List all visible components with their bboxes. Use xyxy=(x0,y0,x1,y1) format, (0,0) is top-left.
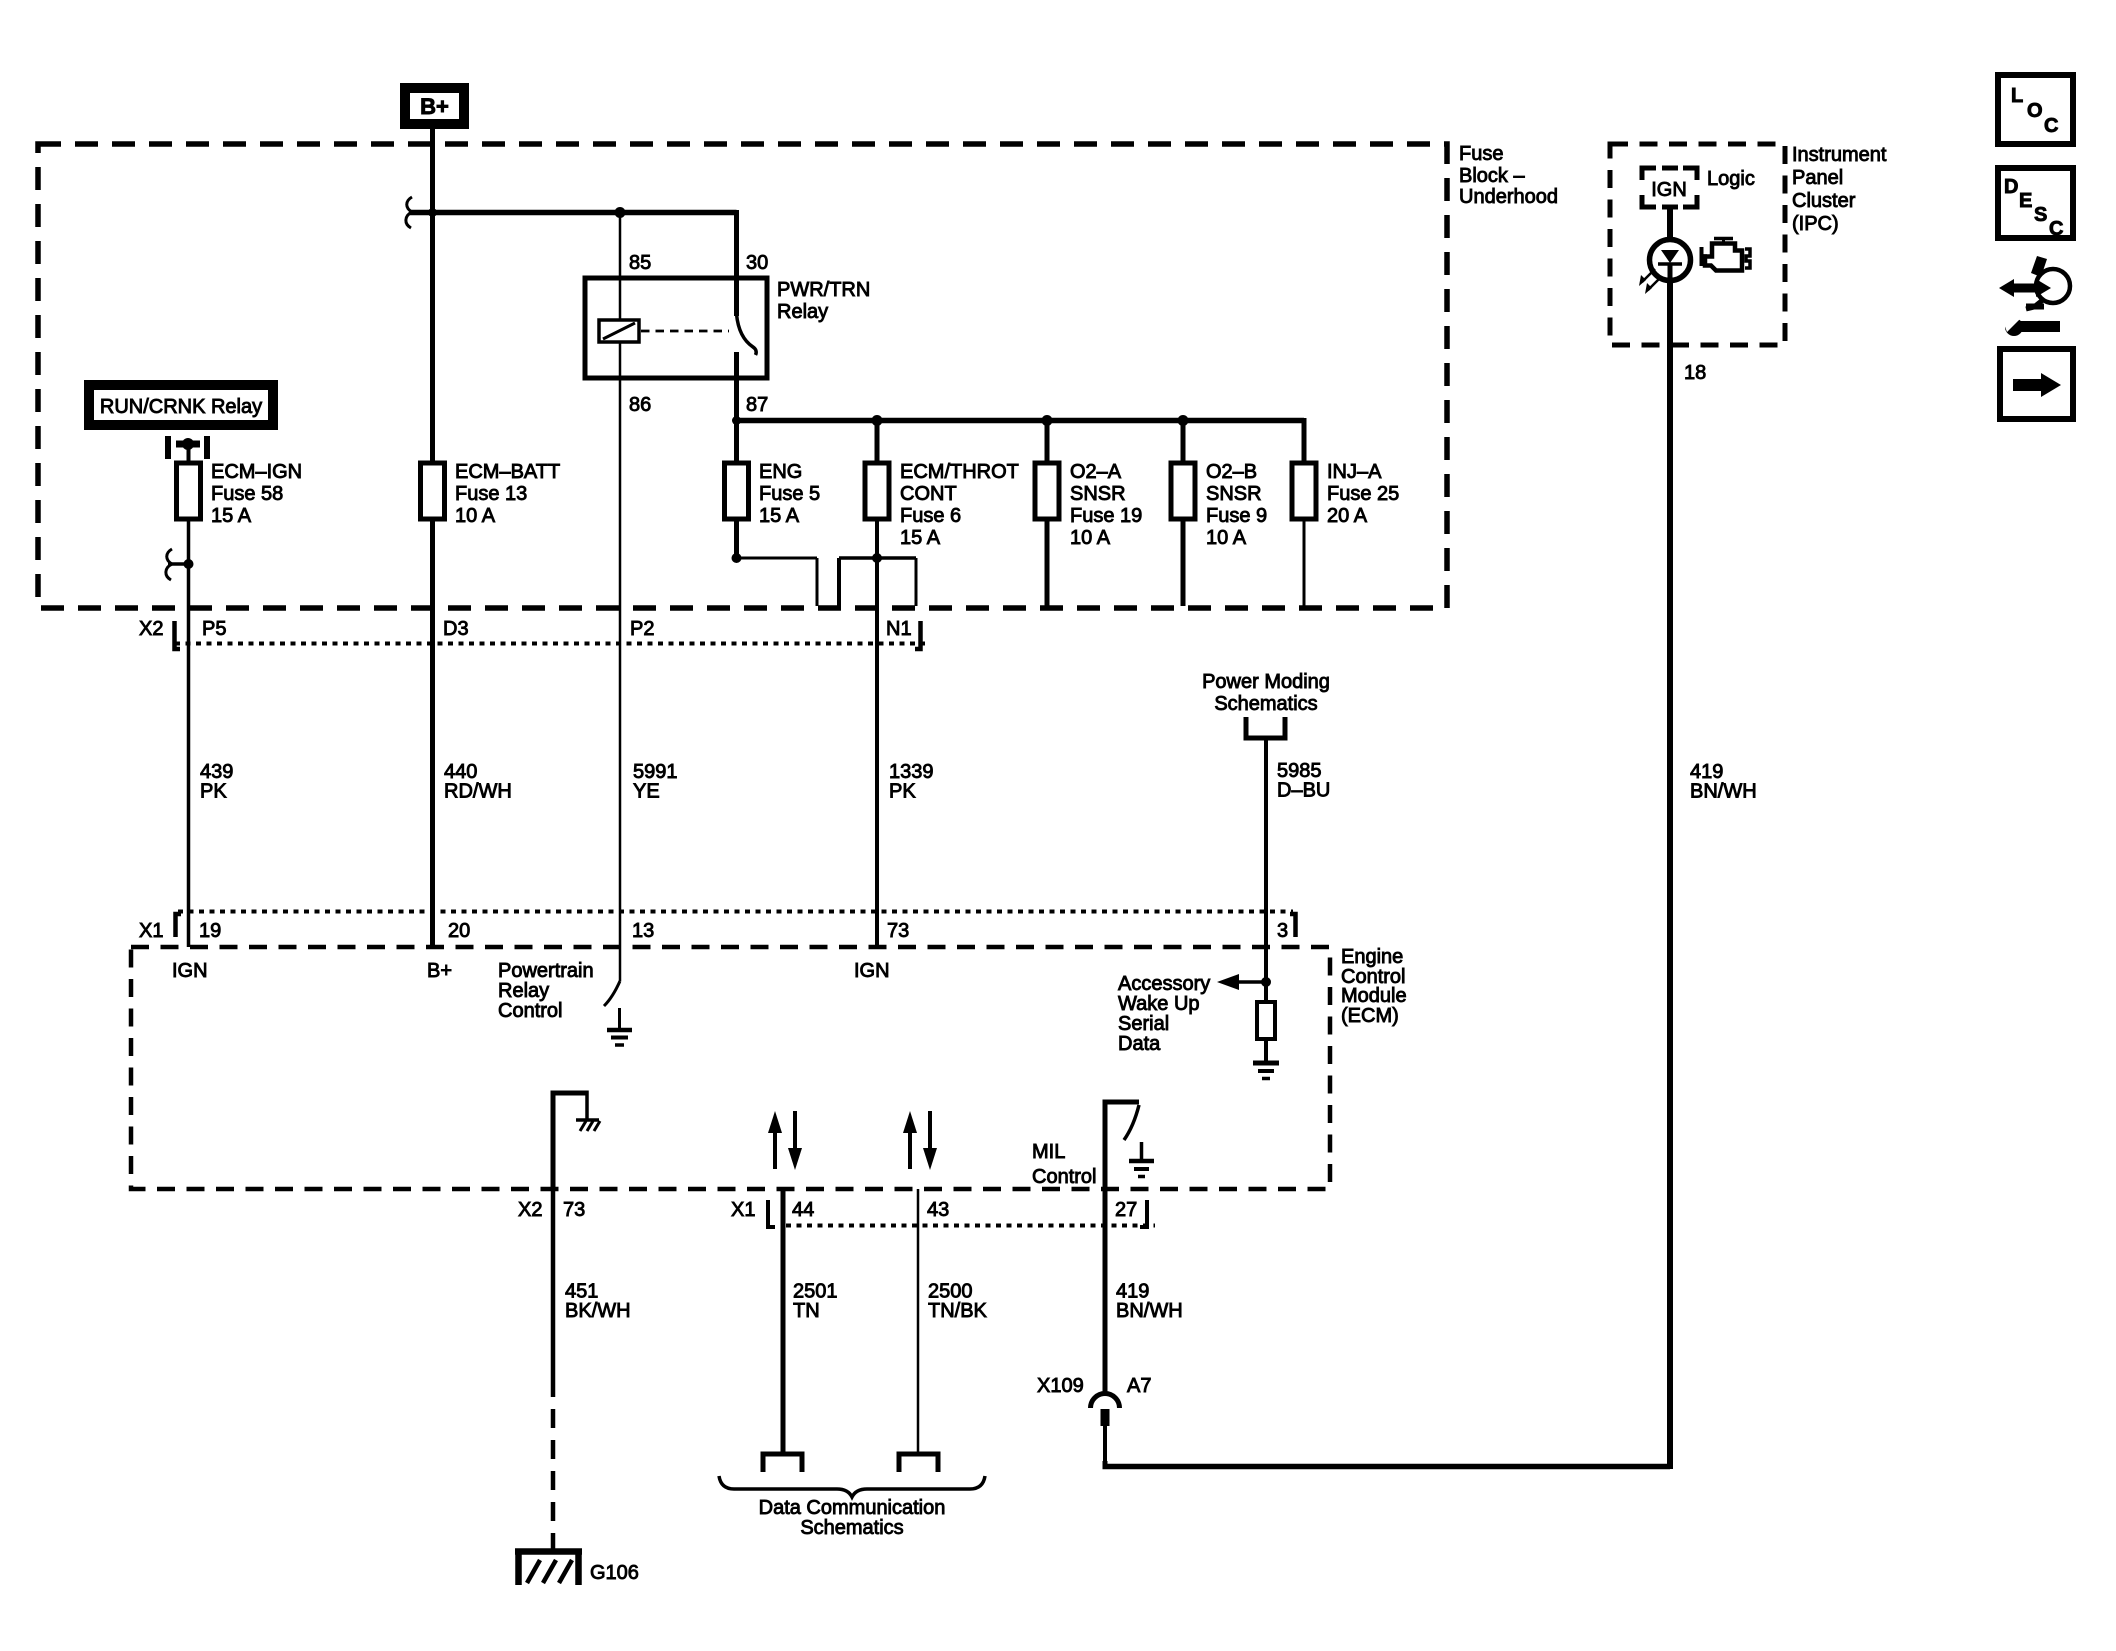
ground flag X2-73 inside ECM xyxy=(551,1091,588,1190)
svg-text:A7: A7 xyxy=(1127,1375,1151,1397)
svg-text:73: 73 xyxy=(887,920,909,942)
node junction rail start xyxy=(732,416,741,425)
svg-text:Fuse 25: Fuse 25 xyxy=(1327,483,1399,505)
svg-text:RD/WH: RD/WH xyxy=(444,781,512,803)
svg-text:C: C xyxy=(2044,115,2058,137)
wire label 439 PK xyxy=(200,761,233,803)
svg-text:Underhood: Underhood xyxy=(1459,186,1558,208)
svg-text:IGN: IGN xyxy=(172,960,208,982)
wire B+ feed vertical xyxy=(430,129,435,463)
svg-text:Fuse 6: Fuse 6 xyxy=(900,505,961,527)
svg-text:Fuse 9: Fuse 9 xyxy=(1206,505,1267,527)
ECM dashed box xyxy=(131,947,1330,1189)
svg-text:15 A: 15 A xyxy=(900,527,941,549)
wire label 451 BK/WH xyxy=(565,1281,631,1323)
svg-text:TN: TN xyxy=(793,1300,820,1322)
svg-text:ECM–BATT: ECM–BATT xyxy=(455,461,560,483)
wire drop to O2-A fuse xyxy=(1045,421,1050,464)
label MIL Control xyxy=(1032,1141,1096,1188)
wire 451 dashed part xyxy=(551,1378,556,1550)
svg-text:E: E xyxy=(2019,190,2032,212)
svg-text:10 A: 10 A xyxy=(455,505,496,527)
svg-text:Power Moding: Power Moding xyxy=(1202,671,1330,693)
node junction B+ and rail xyxy=(428,208,437,217)
svg-text:Cluster: Cluster xyxy=(1792,190,1856,212)
value label fuse 6 xyxy=(900,461,1019,549)
wire drop to relay pin 30 xyxy=(734,210,739,316)
svg-text:Relay: Relay xyxy=(777,301,828,323)
svg-text:ENG: ENG xyxy=(759,461,802,483)
wire 419 right vertical to IPC xyxy=(1667,280,1673,1469)
ground MIL driver xyxy=(1129,1142,1154,1177)
wire drop to ENG fuse xyxy=(734,421,739,464)
icon wrench and arrows xyxy=(1999,256,2070,336)
IPC dashed box xyxy=(1610,144,1785,345)
svg-text:TN/BK: TN/BK xyxy=(928,1300,988,1322)
svg-text:N1: N1 xyxy=(886,618,912,640)
ground internal ECM driver xyxy=(607,1008,632,1045)
connector X1 left half bracket xyxy=(176,914,182,937)
value label fuse 5 xyxy=(759,461,820,527)
svg-text:BN/WH: BN/WH xyxy=(1690,781,1757,803)
svg-text:Data Communication: Data Communication xyxy=(759,1497,946,1519)
node junction rail F9 xyxy=(1178,415,1189,426)
svg-text:B+: B+ xyxy=(427,960,452,982)
svg-text:D–BU: D–BU xyxy=(1277,780,1330,802)
svg-text:Data: Data xyxy=(1118,1033,1161,1055)
wire below fuse 19 xyxy=(1045,519,1050,606)
connector X1 right half bracket xyxy=(1290,914,1296,937)
svg-text:ECM/THROT: ECM/THROT xyxy=(900,461,1019,483)
resistor internal pull xyxy=(1257,1002,1275,1039)
continuation hook on wire 439 xyxy=(166,549,194,580)
svg-text:73: 73 xyxy=(563,1199,585,1221)
accessory wake up arrow xyxy=(1217,974,1266,990)
fuse F19 O2-A SNSR xyxy=(1035,463,1059,519)
icon box arrow xyxy=(2000,349,2073,419)
label Data Communication Schematics xyxy=(759,1497,946,1539)
wire 419 lower run xyxy=(1103,1426,1671,1467)
wire drop to O2-B fuse xyxy=(1181,421,1186,464)
label Power Moding Schematics xyxy=(1202,671,1330,715)
svg-text:Accessory: Accessory xyxy=(1118,973,1210,995)
terminator 2501 xyxy=(763,1454,802,1472)
RUN/CRNK Relay callout box xyxy=(84,380,278,430)
svg-text:X2: X2 xyxy=(518,1199,542,1221)
svg-text:C: C xyxy=(2049,218,2063,240)
RUN/CRNK relay contact output symbol xyxy=(168,436,207,463)
connector X1 bottom right bracket xyxy=(1140,1200,1147,1227)
connector X2 dotted line xyxy=(175,642,925,646)
node junction fuse5 shelf xyxy=(732,553,742,563)
label Instrument Panel Cluster IPC xyxy=(1792,144,1887,235)
svg-text:O2–A: O2–A xyxy=(1070,461,1122,483)
svg-text:87: 87 xyxy=(746,394,768,416)
svg-text:19: 19 xyxy=(199,920,221,942)
check engine icon xyxy=(1701,238,1750,271)
svg-text:PK: PK xyxy=(889,781,916,803)
wire IGN to MIL lamp xyxy=(1667,207,1673,250)
B+ power symbol xyxy=(400,83,469,129)
chassis ground symbol internal xyxy=(576,1120,600,1131)
net label Powertrain Relay Control xyxy=(498,960,594,1022)
MIL control driver elbow xyxy=(1103,1102,1140,1189)
svg-text:20 A: 20 A xyxy=(1327,505,1368,527)
svg-text:Logic: Logic xyxy=(1707,168,1755,190)
wire resistor to ground xyxy=(1264,1039,1268,1062)
off-page bracket power moding xyxy=(1246,717,1285,738)
connector X1 bottom left bracket xyxy=(768,1200,775,1227)
fuse F5 ENG xyxy=(725,463,749,519)
value label fuse 19 xyxy=(1070,461,1142,549)
wire top rail xyxy=(409,210,737,216)
label Engine Control Module ECM xyxy=(1341,946,1407,1027)
fuse F13 ECM-BATT xyxy=(421,463,445,519)
wire 5985 drop xyxy=(1264,738,1268,947)
svg-text:86: 86 xyxy=(629,394,651,416)
wire drop to relay pin 85 xyxy=(619,213,622,321)
svg-text:20: 20 xyxy=(448,920,470,942)
svg-text:SNSR: SNSR xyxy=(1206,483,1262,505)
powertrain relay control driver switch xyxy=(604,981,620,1006)
fuse F6 ECM/THROT CONT xyxy=(865,463,889,519)
svg-text:(IPC): (IPC) xyxy=(1792,213,1839,235)
wire riser into N1 shelf xyxy=(839,558,916,606)
svg-text:44: 44 xyxy=(792,1199,814,1221)
svg-text:Fuse 13: Fuse 13 xyxy=(455,483,527,505)
svg-text:YE: YE xyxy=(633,781,660,803)
svg-text:MIL: MIL xyxy=(1032,1141,1065,1163)
svg-text:BN/WH: BN/WH xyxy=(1116,1300,1183,1322)
relay box U-PWR/TRN xyxy=(585,278,767,378)
svg-text:X1: X1 xyxy=(731,1199,755,1221)
svg-text:B+: B+ xyxy=(420,94,449,119)
svg-text:X109: X109 xyxy=(1037,1375,1084,1397)
wire label 5991 YE xyxy=(633,761,678,803)
svg-text:27: 27 xyxy=(1115,1199,1137,1221)
wire label 2501 TN xyxy=(793,1281,838,1323)
node junction 1339 shelf xyxy=(872,553,882,563)
wire label 1339 PK xyxy=(889,761,934,803)
svg-text:RUN/CRNK Relay: RUN/CRNK Relay xyxy=(100,396,262,418)
svg-text:L: L xyxy=(2011,85,2023,107)
relay coil xyxy=(599,320,639,342)
svg-text:Engine: Engine xyxy=(1341,946,1403,968)
svg-text:BK/WH: BK/WH xyxy=(565,1300,631,1322)
svg-text:10 A: 10 A xyxy=(1206,527,1247,549)
svg-text:Fuse: Fuse xyxy=(1459,143,1503,165)
svg-text:X2: X2 xyxy=(139,618,163,640)
svg-text:P2: P2 xyxy=(630,618,654,640)
svg-text:Schematics: Schematics xyxy=(800,1517,903,1539)
svg-text:Fuse 58: Fuse 58 xyxy=(211,483,283,505)
wire label 5985 D-BU xyxy=(1277,760,1330,802)
wire 13 inside ECM xyxy=(619,947,622,981)
fuse block underhood dashed box xyxy=(38,144,1447,608)
label Accessory Wake Up Serial Data xyxy=(1118,973,1210,1055)
wire label 2500 TN/BK xyxy=(928,1281,988,1323)
label Fuse Block Underhood xyxy=(1459,143,1558,208)
serial data arrows pair 1 xyxy=(768,1111,802,1170)
svg-text:Wake Up: Wake Up xyxy=(1118,993,1200,1015)
svg-text:G106: G106 xyxy=(590,1562,639,1584)
wire label 440 RD/WH xyxy=(444,761,512,803)
continuation hook left of rail xyxy=(406,197,412,228)
svg-text:15 A: 15 A xyxy=(211,505,252,527)
wire 86 drop xyxy=(619,378,622,947)
svg-text:10 A: 10 A xyxy=(1070,527,1111,549)
relay pin 87 stub xyxy=(734,352,739,421)
svg-text:Instrument: Instrument xyxy=(1792,144,1887,166)
fuse F9 O2-B SNSR xyxy=(1171,463,1195,519)
relay coil wire through lower half xyxy=(619,342,622,378)
svg-text:INJ–A: INJ–A xyxy=(1327,461,1382,483)
wire 2501 xyxy=(781,1189,786,1454)
svg-text:X1: X1 xyxy=(139,920,163,942)
svg-text:P5: P5 xyxy=(202,618,226,640)
svg-text:85: 85 xyxy=(629,252,651,274)
wire label 419 BN/WH right xyxy=(1690,761,1757,803)
brace data communication xyxy=(719,1476,985,1497)
svg-text:Schematics: Schematics xyxy=(1214,693,1317,715)
svg-text:43: 43 xyxy=(927,1199,949,1221)
terminator 2500 xyxy=(899,1454,938,1472)
connector X109 terminal stub xyxy=(1101,1409,1110,1426)
value label fuse 13 xyxy=(455,461,560,527)
value label fuse 25 xyxy=(1327,461,1399,527)
svg-text:Fuse 5: Fuse 5 xyxy=(759,483,820,505)
fuse F58 ECM-IGN xyxy=(177,463,201,519)
svg-text:Panel: Panel xyxy=(1792,167,1843,189)
svg-text:Block –: Block – xyxy=(1459,165,1525,187)
wire 440 below fuse 13 xyxy=(430,519,435,947)
wire 451 solid part xyxy=(551,1189,556,1378)
node junction rail F19 xyxy=(1042,415,1053,426)
svg-text:18: 18 xyxy=(1684,362,1706,384)
svg-text:30: 30 xyxy=(746,252,768,274)
svg-text:PK: PK xyxy=(200,781,227,803)
inline connector X109 arc xyxy=(1091,1394,1120,1409)
label PWR/TRN Relay xyxy=(777,279,870,323)
svg-text:Control: Control xyxy=(498,1000,562,1022)
svg-text:S: S xyxy=(2034,204,2047,226)
wire 439 below fuse 58 xyxy=(187,519,191,947)
wire drop to ECM/THROT fuse xyxy=(875,421,880,464)
LED emission arrows xyxy=(1639,269,1661,294)
value label fuse 9 xyxy=(1206,461,1267,549)
svg-text:Fuse 19: Fuse 19 xyxy=(1070,505,1142,527)
relay actuation dashed link xyxy=(641,330,729,333)
icon box DESC xyxy=(1998,168,2073,240)
svg-text:Powertrain: Powertrain xyxy=(498,960,594,982)
wire below fuse 25 xyxy=(1303,519,1306,606)
node junction rail F6 xyxy=(872,415,883,426)
serial data arrows pair 2 xyxy=(903,1111,937,1170)
svg-text:O: O xyxy=(2027,100,2043,122)
connector X1 dotted line xyxy=(178,910,1293,914)
svg-text:15 A: 15 A xyxy=(759,505,800,527)
svg-text:Module: Module xyxy=(1341,985,1407,1007)
ground G106 xyxy=(515,1549,582,1585)
node junction rail to coil branch xyxy=(615,207,626,218)
node IGN dashed callout xyxy=(1642,168,1697,207)
svg-text:O2–B: O2–B xyxy=(1206,461,1257,483)
svg-text:CONT: CONT xyxy=(900,483,957,505)
svg-text:D3: D3 xyxy=(443,618,469,640)
svg-text:13: 13 xyxy=(632,920,654,942)
svg-text:3: 3 xyxy=(1277,920,1288,942)
wire below fuse 5 xyxy=(734,519,739,558)
wire 2500 xyxy=(917,1189,920,1454)
MIL driver switch blade xyxy=(1124,1105,1139,1140)
svg-text:IGN: IGN xyxy=(854,960,890,982)
ground below resistor xyxy=(1253,1063,1279,1079)
wire below fuse 9 xyxy=(1181,519,1186,606)
connector X1 bottom dotted line xyxy=(786,1224,1155,1228)
wire drop to INJ-A fuse xyxy=(1302,418,1307,463)
svg-text:(ECM): (ECM) xyxy=(1341,1005,1399,1027)
node junction accessory wake up xyxy=(1261,977,1271,987)
wire shelf right from fuse 5 xyxy=(737,558,818,606)
wire 1339 below fuse 6 xyxy=(875,519,879,947)
svg-text:Relay: Relay xyxy=(498,980,549,1002)
fuse F25 INJ-A xyxy=(1292,463,1316,519)
icon box LOC xyxy=(1998,75,2073,144)
svg-text:D: D xyxy=(2004,176,2018,198)
svg-text:IGN: IGN xyxy=(1651,179,1687,201)
wire 5985 inside ECM xyxy=(1264,947,1268,1002)
svg-text:PWR/TRN: PWR/TRN xyxy=(777,279,870,301)
svg-text:ECM–IGN: ECM–IGN xyxy=(211,461,302,483)
svg-text:SNSR: SNSR xyxy=(1070,483,1126,505)
connector X2 left half bracket xyxy=(175,621,181,649)
svg-text:Control: Control xyxy=(1032,1166,1096,1188)
svg-text:Serial: Serial xyxy=(1118,1013,1169,1035)
value label fuse 58 xyxy=(211,461,302,527)
wire label 419 BN/WH xyxy=(1116,1281,1183,1323)
relay switch blade xyxy=(737,314,757,355)
wire 419 from pin 27 xyxy=(1103,1189,1108,1394)
indicator LED MIL lamp xyxy=(1650,240,1691,281)
wire fuse feeder rail from 87 xyxy=(737,418,1305,424)
connector X2 right half bracket xyxy=(915,621,921,649)
